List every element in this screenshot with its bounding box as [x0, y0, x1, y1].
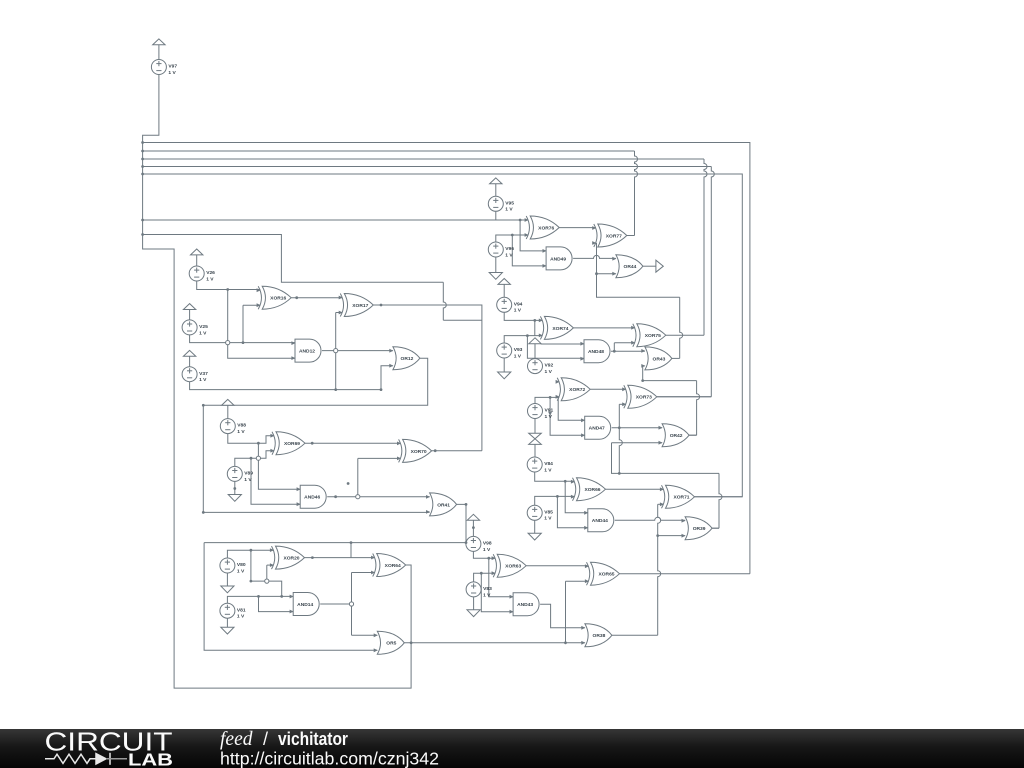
node flag — [191, 249, 203, 255]
wire — [712, 527, 719, 529]
junction — [295, 296, 298, 299]
pin arrow — [525, 218, 529, 222]
svg-text:AND46: AND46 — [304, 495, 320, 501]
junction — [511, 234, 514, 237]
svg-text:V26: V26 — [206, 270, 215, 276]
pin arrow — [270, 449, 274, 453]
junction — [613, 350, 616, 353]
pin arrow — [556, 395, 560, 399]
junction — [410, 641, 413, 644]
voltage source V88 — [220, 419, 246, 435]
wire — [565, 481, 588, 513]
node flag — [498, 279, 510, 285]
pin arrow — [581, 433, 585, 437]
svg-text:XOR63: XOR63 — [505, 564, 521, 570]
junction — [380, 388, 383, 391]
voltage source V83 — [466, 582, 492, 598]
gate AND44 — [588, 509, 614, 532]
pin arrow — [543, 249, 547, 253]
svg-text:XOR74: XOR74 — [552, 326, 568, 332]
svg-text:1 V: 1 V — [206, 276, 214, 282]
wire — [227, 550, 273, 558]
wire — [712, 527, 719, 529]
wire — [228, 434, 274, 444]
junction — [549, 396, 552, 399]
svg-text:V93: V93 — [514, 347, 523, 353]
wire — [520, 220, 546, 251]
pin arrow — [257, 288, 261, 292]
wire — [504, 336, 542, 343]
wire — [611, 350, 645, 352]
junction ring — [334, 349, 338, 353]
gate XOR72 — [557, 378, 590, 401]
junction — [380, 304, 383, 307]
voltage source V91 — [528, 404, 554, 420]
gate AND14 — [293, 593, 319, 616]
svg-text:1 V: 1 V — [244, 477, 252, 483]
wire — [504, 312, 542, 320]
voltage source V25 — [182, 320, 208, 336]
pin arrow — [592, 226, 596, 230]
gate XOR20 — [272, 546, 305, 569]
wire — [204, 543, 377, 651]
svg-text:XOR65: XOR65 — [598, 572, 614, 578]
wire — [143, 150, 635, 152]
voltage source V98 — [466, 536, 492, 552]
pin arrow — [659, 426, 663, 430]
junction — [350, 541, 353, 544]
wire — [495, 184, 497, 197]
wire — [540, 604, 585, 628]
pin arrow — [543, 264, 547, 268]
pin arrow — [297, 487, 301, 491]
svg-text:V84: V84 — [544, 461, 553, 467]
voltage source V97 — [151, 60, 177, 76]
junction — [141, 141, 144, 144]
wire — [527, 336, 584, 359]
junction — [347, 482, 350, 485]
gate XOR77 — [594, 224, 627, 247]
pin arrow — [270, 434, 274, 438]
pin arrow — [580, 357, 584, 361]
pin arrow — [525, 233, 529, 237]
gate XOR73 — [624, 385, 657, 408]
svg-text:XOR16: XOR16 — [270, 296, 286, 302]
voltage source V92 — [528, 359, 554, 375]
gate OR42 — [662, 424, 689, 447]
node flag — [529, 338, 541, 344]
logo resistor-diode glyph — [45, 753, 127, 765]
wire — [597, 243, 680, 297]
svg-text:1 V: 1 V — [514, 308, 522, 314]
wire — [457, 504, 466, 542]
svg-text:1 V: 1 V — [483, 547, 491, 553]
pin arrow — [389, 349, 393, 353]
gate OR41 — [430, 493, 457, 516]
wire — [658, 535, 685, 537]
pin arrow — [660, 502, 664, 506]
wire — [358, 457, 401, 459]
wire — [143, 219, 529, 221]
svg-text:AND48: AND48 — [588, 349, 604, 355]
wire — [503, 284, 505, 297]
wire — [143, 174, 743, 497]
wire — [595, 242, 598, 244]
svg-text:AND44: AND44 — [592, 518, 608, 524]
node flag — [183, 350, 195, 356]
junction — [334, 495, 337, 498]
pin arrow — [492, 556, 496, 560]
gate OR39 — [685, 517, 712, 540]
junction — [472, 526, 475, 529]
wire — [643, 265, 656, 267]
pin arrow — [426, 510, 430, 514]
wire with hop — [658, 504, 661, 635]
pin arrow — [291, 341, 295, 345]
gate OR5 — [377, 631, 404, 654]
svg-text:1 V: 1 V — [237, 568, 245, 574]
junction — [250, 457, 253, 460]
junction — [556, 495, 559, 498]
svg-text:1 V: 1 V — [505, 207, 513, 213]
wire with hop — [443, 282, 446, 320]
pin arrow — [290, 610, 294, 614]
wire — [227, 596, 293, 603]
junction — [141, 158, 144, 161]
pin arrow — [631, 341, 635, 345]
junction — [242, 341, 245, 344]
wire — [481, 573, 513, 612]
wire — [143, 235, 444, 283]
ground — [221, 586, 234, 593]
wire — [267, 564, 274, 566]
wire — [558, 397, 585, 420]
wire — [327, 496, 429, 498]
wire — [258, 443, 300, 489]
wire — [695, 496, 743, 498]
svg-text:OR43: OR43 — [653, 356, 666, 362]
wire — [351, 573, 353, 636]
wire — [689, 434, 697, 436]
pin arrow — [571, 495, 575, 499]
wire — [613, 343, 615, 351]
wire — [534, 520, 536, 533]
junction — [564, 641, 567, 644]
svg-text:XOR75: XOR75 — [645, 333, 661, 339]
wire with hop — [615, 517, 685, 520]
wire — [496, 235, 528, 242]
junction — [487, 557, 490, 560]
gate XOR64 — [373, 554, 406, 577]
svg-text:OR5: OR5 — [386, 641, 396, 647]
pin arrow — [612, 257, 616, 261]
wire — [242, 305, 244, 342]
junction — [618, 472, 621, 475]
junction — [250, 580, 253, 583]
junction — [141, 173, 144, 176]
wire — [627, 235, 635, 237]
voltage source V81 — [220, 603, 246, 619]
svg-text:OR38: OR38 — [593, 633, 606, 639]
wire — [619, 403, 626, 405]
voltage source V94 — [497, 297, 523, 313]
wire — [658, 503, 664, 505]
svg-text:XOR77: XOR77 — [606, 233, 622, 239]
wire with hop — [704, 159, 707, 335]
wire — [672, 357, 680, 359]
wire — [503, 358, 505, 372]
pin arrow — [581, 418, 585, 422]
voltage source V84 — [527, 457, 553, 473]
wire — [612, 634, 658, 636]
junction — [257, 595, 260, 598]
wire — [197, 281, 261, 290]
pin arrow — [585, 579, 589, 583]
svg-text:vichitator: vichitator — [278, 729, 348, 749]
svg-text:V98: V98 — [483, 541, 492, 547]
gate OR43 — [645, 347, 672, 370]
junction — [202, 404, 205, 407]
gate AND12 — [295, 339, 321, 362]
voltage source V85 — [527, 505, 553, 521]
bottom banner — [0, 729, 1024, 768]
junction — [618, 426, 621, 429]
junction — [141, 165, 144, 168]
voltage source V37 — [182, 367, 208, 383]
wire — [235, 451, 274, 467]
pin arrow — [270, 548, 274, 552]
wire — [565, 581, 567, 643]
junction — [465, 541, 468, 544]
junction — [533, 319, 536, 322]
wire — [472, 520, 474, 536]
svg-text:1 V: 1 V — [544, 516, 552, 522]
junction — [526, 334, 529, 337]
node flag — [183, 304, 195, 310]
ground — [467, 610, 480, 617]
svg-text:XOR76: XOR76 — [538, 225, 554, 231]
svg-text:OR41: OR41 — [437, 502, 450, 508]
svg-text:V97: V97 — [168, 64, 177, 70]
svg-text:V89: V89 — [244, 471, 253, 477]
wire — [404, 642, 585, 644]
wire — [495, 257, 497, 273]
wire — [473, 551, 495, 558]
junction ring — [226, 341, 230, 345]
wire — [373, 305, 482, 451]
svg-text:XOR70: XOR70 — [411, 449, 427, 455]
wire — [550, 397, 585, 435]
wire — [227, 405, 229, 418]
node flag — [467, 514, 479, 520]
svg-text:V85: V85 — [544, 509, 553, 515]
junction — [141, 150, 144, 153]
gate XOR16 — [258, 286, 291, 309]
svg-text:V96: V96 — [505, 246, 514, 252]
svg-text:AND49: AND49 — [550, 256, 566, 262]
pin arrow — [339, 296, 343, 300]
wire — [559, 227, 596, 229]
ground — [498, 372, 511, 379]
gate AND43 — [513, 593, 539, 616]
pin arrow — [339, 311, 343, 315]
gate OR38 — [585, 624, 612, 647]
wire — [495, 211, 497, 220]
wire with hop — [635, 151, 638, 236]
voltage source V93 — [497, 343, 523, 359]
svg-text:XOR72: XOR72 — [569, 387, 585, 393]
pin arrow — [641, 349, 645, 353]
wire — [526, 565, 588, 567]
svg-text:XOR64: XOR64 — [385, 563, 401, 569]
svg-text:OR42: OR42 — [670, 433, 683, 439]
junction — [141, 233, 144, 236]
svg-text:AND43: AND43 — [517, 602, 533, 608]
junction — [311, 556, 314, 559]
wire with hop — [619, 404, 622, 473]
svg-text:1 V: 1 V — [545, 414, 553, 420]
svg-text:OR12: OR12 — [401, 356, 414, 362]
pin arrow — [426, 495, 430, 499]
junction — [564, 480, 567, 483]
junction — [595, 272, 598, 275]
pin arrow — [509, 595, 513, 599]
junction — [480, 572, 483, 575]
svg-text:V94: V94 — [514, 301, 523, 307]
pin arrow — [492, 571, 496, 575]
wire — [590, 388, 626, 390]
gate AND48 — [584, 340, 610, 363]
junction ring — [356, 495, 360, 499]
wire — [190, 366, 393, 390]
svg-text:XOR17: XOR17 — [352, 303, 368, 309]
wire — [335, 313, 337, 390]
svg-text:1 V: 1 V — [545, 369, 553, 375]
wire — [573, 327, 634, 329]
gate XOR63 — [493, 554, 526, 577]
wire — [535, 397, 559, 403]
gate XOR17 — [340, 294, 373, 317]
wire — [612, 443, 720, 474]
wire — [666, 334, 704, 336]
pin arrow — [580, 342, 584, 346]
pin arrow — [397, 457, 401, 461]
wire with hop — [697, 381, 700, 436]
pin arrow — [374, 633, 378, 637]
junction — [226, 288, 229, 291]
wire — [597, 273, 616, 275]
pin arrow — [257, 303, 261, 307]
svg-text:V37: V37 — [199, 371, 208, 377]
svg-text:XOR69: XOR69 — [284, 441, 300, 447]
pin arrow — [682, 534, 686, 538]
junction ring — [256, 456, 260, 460]
voltage source V96 — [488, 242, 514, 258]
wire — [143, 166, 712, 168]
junction — [257, 442, 260, 445]
gate AND46 — [300, 485, 326, 508]
wire — [228, 290, 295, 359]
pin arrow — [297, 502, 301, 506]
svg-text:1 V: 1 V — [505, 252, 513, 258]
junction — [465, 503, 468, 506]
junction — [311, 442, 314, 445]
pin arrow — [270, 563, 274, 567]
pin arrow — [659, 441, 663, 445]
wire — [534, 320, 536, 335]
wire — [143, 143, 750, 574]
junction — [250, 549, 253, 552]
pin arrow — [682, 519, 686, 523]
svg-text:1 V: 1 V — [237, 429, 245, 435]
wire — [614, 342, 635, 344]
wire with hop — [573, 255, 616, 258]
node flag — [153, 39, 165, 45]
gate XOR65 — [587, 562, 620, 585]
pin arrow — [612, 272, 616, 276]
voltage source V89 — [227, 466, 253, 482]
svg-text:XOR66: XOR66 — [584, 487, 600, 493]
junction ring — [265, 579, 269, 583]
pin arrow — [584, 511, 588, 515]
junction ring — [349, 602, 353, 606]
svg-text:AND12: AND12 — [299, 349, 315, 355]
gate XOR71 — [662, 485, 695, 508]
ground — [228, 495, 241, 502]
pin arrow — [584, 526, 588, 530]
wire — [643, 366, 697, 381]
wire — [489, 558, 513, 597]
junction — [233, 487, 236, 490]
pin arrow — [581, 626, 585, 630]
wire — [535, 496, 575, 505]
pin arrow — [581, 641, 585, 645]
svg-text:V95: V95 — [505, 200, 514, 206]
wire — [320, 603, 351, 605]
wire — [203, 358, 429, 512]
pin arrow — [592, 241, 596, 245]
wire — [474, 573, 489, 582]
wire — [350, 543, 352, 558]
pin arrow — [539, 319, 543, 323]
wire with hop — [711, 167, 714, 397]
wire — [243, 304, 260, 306]
wire — [226, 618, 228, 627]
wire — [226, 573, 228, 586]
pin arrow — [556, 380, 560, 384]
pin arrow — [622, 387, 626, 391]
gate XOR75 — [633, 324, 666, 347]
wire — [143, 158, 704, 160]
pin arrow — [539, 334, 543, 338]
output flag — [656, 260, 663, 272]
svg-text:V25: V25 — [199, 324, 208, 330]
gate XOR76 — [526, 216, 559, 239]
gate XOR69 — [272, 432, 305, 455]
wire — [259, 596, 294, 611]
wire — [250, 550, 252, 581]
junction — [641, 379, 644, 382]
pin arrow — [397, 442, 401, 446]
svg-text:V81: V81 — [237, 607, 246, 613]
svg-text:V92: V92 — [545, 363, 554, 369]
wire — [689, 434, 697, 436]
wire — [534, 344, 536, 359]
pin arrow — [291, 356, 295, 360]
ground — [489, 273, 502, 280]
svg-text:AND14: AND14 — [297, 602, 313, 608]
svg-text:AND47: AND47 — [589, 426, 605, 432]
